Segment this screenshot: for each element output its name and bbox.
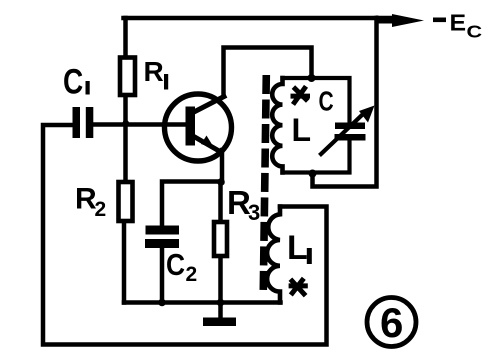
svg-text:3: 3 xyxy=(248,200,260,225)
svg-text:L: L xyxy=(292,112,312,148)
svg-text:2: 2 xyxy=(95,198,107,221)
svg-text:C: C xyxy=(63,61,83,101)
svg-text:C: C xyxy=(467,22,483,42)
svg-text:C: C xyxy=(319,87,334,118)
svg-text:R: R xyxy=(144,56,164,87)
svg-text:L: L xyxy=(287,229,308,267)
svg-text:C: C xyxy=(166,248,185,282)
svg-text:E: E xyxy=(450,10,467,36)
svg-text:2: 2 xyxy=(186,263,198,286)
svg-text:6: 6 xyxy=(380,299,403,346)
